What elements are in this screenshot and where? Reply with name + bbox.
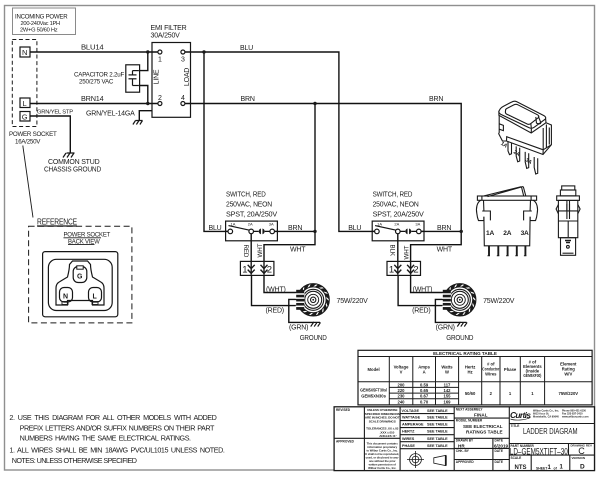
svg-text:TITLE: TITLE <box>511 424 520 428</box>
svg-text:SEE TABLE: SEE TABLE <box>427 423 448 427</box>
svg-text:200-240Vac 1PH: 200-240Vac 1PH <box>21 21 61 27</box>
svg-text:V: V <box>400 370 403 375</box>
svg-text:PREFIX LETTERS AND/OR SUFFIX N: PREFIX LETTERS AND/OR SUFFIX NUMBERS ON … <box>20 424 215 433</box>
svg-text:SWITCH, RED: SWITCH, RED <box>226 192 266 199</box>
svg-text:3A: 3A <box>415 221 420 226</box>
svg-text:INCOMING POWER: INCOMING POWER <box>15 14 68 21</box>
svg-text:G: G <box>77 274 83 281</box>
svg-text:BRN: BRN <box>241 96 255 103</box>
svg-text:W/V: W/V <box>564 372 572 377</box>
svg-text:117: 117 <box>444 382 451 387</box>
svg-text:(RED): (RED) <box>266 308 284 315</box>
svg-text:Hz: Hz <box>468 370 473 375</box>
svg-text:L: L <box>23 99 27 108</box>
svg-text:WHT: WHT <box>290 247 306 254</box>
svg-text:2: 2 <box>158 95 162 102</box>
svg-text:BRN: BRN <box>437 225 451 232</box>
svg-text:LD–GEM5XTIFT–30: LD–GEM5XTIFT–30 <box>510 446 568 456</box>
svg-text:W: W <box>445 370 449 375</box>
svg-text:Model: Model <box>368 367 380 372</box>
svg-text:Wires: Wires <box>485 372 497 377</box>
svg-text:GROUND: GROUND <box>300 335 327 342</box>
svg-text:REFERENCE: REFERENCE <box>37 218 77 227</box>
svg-text:NTS: NTS <box>515 465 527 471</box>
svg-text:250/275 VAC: 250/275 VAC <box>79 79 114 86</box>
svg-text:SCALE DRAWINGS: SCALE DRAWINGS <box>369 419 396 423</box>
svg-text:FINAL: FINAL <box>474 413 488 418</box>
svg-text:LINE: LINE <box>154 69 161 84</box>
svg-text:BLU14: BLU14 <box>81 45 104 52</box>
svg-text:BRN: BRN <box>429 96 443 103</box>
svg-text:PHASE: PHASE <box>402 444 415 448</box>
svg-text:0.59: 0.59 <box>420 382 429 387</box>
svg-text:L: L <box>93 294 98 301</box>
svg-text:LOAD: LOAD <box>184 68 191 86</box>
svg-text:2. USE THIS DIAGRAM FOR ALL OT: 2. USE THIS DIAGRAM FOR ALL OTHER MODELS… <box>9 413 216 422</box>
svg-text:(RED): (RED) <box>412 308 430 315</box>
svg-text:6/2019: 6/2019 <box>494 443 508 448</box>
svg-text:1A: 1A <box>486 230 494 237</box>
svg-text:220: 220 <box>398 388 406 393</box>
svg-text:EMI FILTER: EMI FILTER <box>151 25 187 32</box>
svg-text:4: 4 <box>181 95 185 102</box>
svg-text:BRN: BRN <box>288 225 302 232</box>
svg-text:CHASSIS GROUND: CHASSIS GROUND <box>44 167 101 174</box>
svg-text:50/60: 50/60 <box>465 391 476 396</box>
svg-text:(GRN): (GRN) <box>436 325 455 332</box>
svg-text:SHEET: SHEET <box>536 466 548 470</box>
svg-text:75W/220V: 75W/220V <box>559 391 579 396</box>
svg-text:GEM5XF30): GEM5XF30) <box>523 373 541 378</box>
svg-text:1. ALL WIRES SHALL BE MIN 18AW: 1. ALL WIRES SHALL BE MIN 18AWG PVC/UL10… <box>9 446 224 455</box>
svg-text:BLK: BLK <box>388 245 395 257</box>
svg-text:SEE ELECTRICAL: SEE ELECTRICAL <box>463 424 503 429</box>
svg-text:G: G <box>22 113 28 122</box>
svg-text:250VAC, NEON: 250VAC, NEON <box>373 202 419 209</box>
svg-text:VERSION: VERSION <box>572 456 586 460</box>
svg-text:NUMBERS HAVING THE SAME ELECTR: NUMBERS HAVING THE SAME ELECTRICAL RATIN… <box>20 434 191 443</box>
svg-text:3: 3 <box>181 57 185 64</box>
svg-text:www.wilburcurtis.com: www.wilburcurtis.com <box>562 416 589 419</box>
svg-text:REVISED: REVISED <box>336 408 351 412</box>
svg-text:RATINGS TABLE: RATINGS TABLE <box>466 429 503 434</box>
svg-text:D: D <box>580 464 585 471</box>
svg-text:APPROVED: APPROVED <box>456 460 475 464</box>
svg-text:BRN14: BRN14 <box>81 96 104 103</box>
svg-text:HERTZ: HERTZ <box>402 430 415 434</box>
svg-text:(GRN): (GRN) <box>289 325 308 332</box>
svg-text:169: 169 <box>444 399 452 404</box>
svg-text:75W/220V: 75W/220V <box>337 298 369 305</box>
svg-text:1: 1 <box>389 265 394 276</box>
svg-text:Phase: Phase <box>504 367 517 372</box>
svg-text:GRN/YEL-14GA: GRN/YEL-14GA <box>86 111 135 118</box>
svg-text:SCALE: SCALE <box>511 456 522 460</box>
svg-text:(WHT): (WHT) <box>266 286 286 293</box>
svg-text:200: 200 <box>398 382 406 387</box>
svg-text:LADDER DIAGRAM: LADDER DIAGRAM <box>523 427 578 436</box>
svg-text:BLU: BLU <box>209 225 222 232</box>
svg-text:APPROVED: APPROVED <box>336 439 355 443</box>
svg-text:DRAWN BY: DRAWN BY <box>456 439 474 443</box>
svg-text:1: 1 <box>158 57 162 64</box>
svg-text:MODEL NUMBER: MODEL NUMBER <box>456 419 483 423</box>
svg-text:NOTES: UNLESS OTHERWISE SPECIF: NOTES: UNLESS OTHERWISE SPECIFIED <box>12 456 137 465</box>
svg-text:2W+G 50/60 Hz: 2W+G 50/60 Hz <box>20 28 58 34</box>
svg-text:250VAC, NEON: 250VAC, NEON <box>226 202 272 209</box>
svg-text:240: 240 <box>398 399 406 404</box>
svg-text:N: N <box>63 294 68 301</box>
svg-text:SEE TABLE: SEE TABLE <box>427 416 448 420</box>
svg-text:GRN/YEL STP: GRN/YEL STP <box>37 110 73 116</box>
svg-text:GEM5X5FT30s/: GEM5X5FT30s/ <box>360 388 388 393</box>
svg-text:DATE: DATE <box>495 439 503 443</box>
svg-text:HR: HR <box>458 444 465 449</box>
svg-text:A: A <box>423 370 426 375</box>
svg-text:0.65: 0.65 <box>420 388 429 393</box>
svg-text:0.67: 0.67 <box>420 394 429 399</box>
svg-text:0.70: 0.70 <box>420 399 429 404</box>
svg-text:WATTAGE: WATTAGE <box>402 416 421 420</box>
svg-text:WHT: WHT <box>437 247 453 254</box>
svg-text:3A: 3A <box>269 221 274 226</box>
svg-text:Wilbur Curtis Co., Inc.: Wilbur Curtis Co., Inc. <box>368 466 396 470</box>
svg-text:WHT: WHT <box>257 243 264 257</box>
svg-text:2A: 2A <box>394 221 399 226</box>
svg-text:COMMON STUD: COMMON STUD <box>48 159 100 166</box>
svg-text:SEE TABLE: SEE TABLE <box>427 430 448 434</box>
svg-text:SPST, 20A/250V: SPST, 20A/250V <box>373 212 425 219</box>
svg-text:2A: 2A <box>503 230 511 237</box>
svg-text:142: 142 <box>444 388 452 393</box>
svg-text:SWITCH, RED: SWITCH, RED <box>373 192 413 199</box>
svg-text:ELECTRICAL RATING TABLE: ELECTRICAL RATING TABLE <box>433 351 497 356</box>
svg-text:1A: 1A <box>231 221 236 226</box>
svg-text:WHT: WHT <box>403 245 410 259</box>
svg-text:SEE TABLE: SEE TABLE <box>427 444 448 448</box>
svg-text:1: 1 <box>242 265 247 276</box>
svg-text:30A/250V: 30A/250V <box>151 33 181 40</box>
svg-text:CHK. BY: CHK. BY <box>456 449 470 453</box>
svg-text:AMPERAGE: AMPERAGE <box>402 423 424 427</box>
svg-text:155: 155 <box>444 394 452 399</box>
svg-text:1A: 1A <box>377 221 382 226</box>
svg-text:CAPACITOR 2.2uF: CAPACITOR 2.2uF <box>74 72 124 79</box>
svg-text:NEXT ASSEMBLY: NEXT ASSEMBLY <box>456 407 484 411</box>
svg-text:C: C <box>578 446 585 456</box>
svg-text:DATE: DATE <box>495 449 503 453</box>
svg-text:16A/250V: 16A/250V <box>15 139 41 146</box>
svg-text:RED: RED <box>242 245 249 258</box>
svg-text:GROUND: GROUND <box>446 335 473 342</box>
svg-text:BLU: BLU <box>348 225 361 232</box>
svg-text:SEE TABLE: SEE TABLE <box>427 409 448 413</box>
svg-text:BLU: BLU <box>240 45 253 52</box>
svg-text:3A: 3A <box>521 230 529 237</box>
svg-text:VOLTAGE: VOLTAGE <box>402 409 420 413</box>
svg-text:N: N <box>22 48 27 57</box>
svg-text:SPST, 20A/250V: SPST, 20A/250V <box>226 212 278 219</box>
svg-text:SEE TABLE: SEE TABLE <box>427 437 448 441</box>
svg-text:75W/220V: 75W/220V <box>483 298 515 305</box>
svg-text:(WHT): (WHT) <box>413 286 433 293</box>
svg-text:230: 230 <box>398 394 406 399</box>
svg-text:ANGLES ±1°: ANGLES ±1° <box>379 434 397 438</box>
svg-text:Montebello, CA 90640: Montebello, CA 90640 <box>533 416 559 419</box>
svg-text:WIRES: WIRES <box>402 437 415 441</box>
svg-text:GEM5XN30s: GEM5XN30s <box>361 394 386 399</box>
svg-text:DATE: DATE <box>495 460 503 464</box>
svg-text:2A: 2A <box>248 221 253 226</box>
svg-text:POWER SOCKET: POWER SOCKET <box>9 131 57 138</box>
